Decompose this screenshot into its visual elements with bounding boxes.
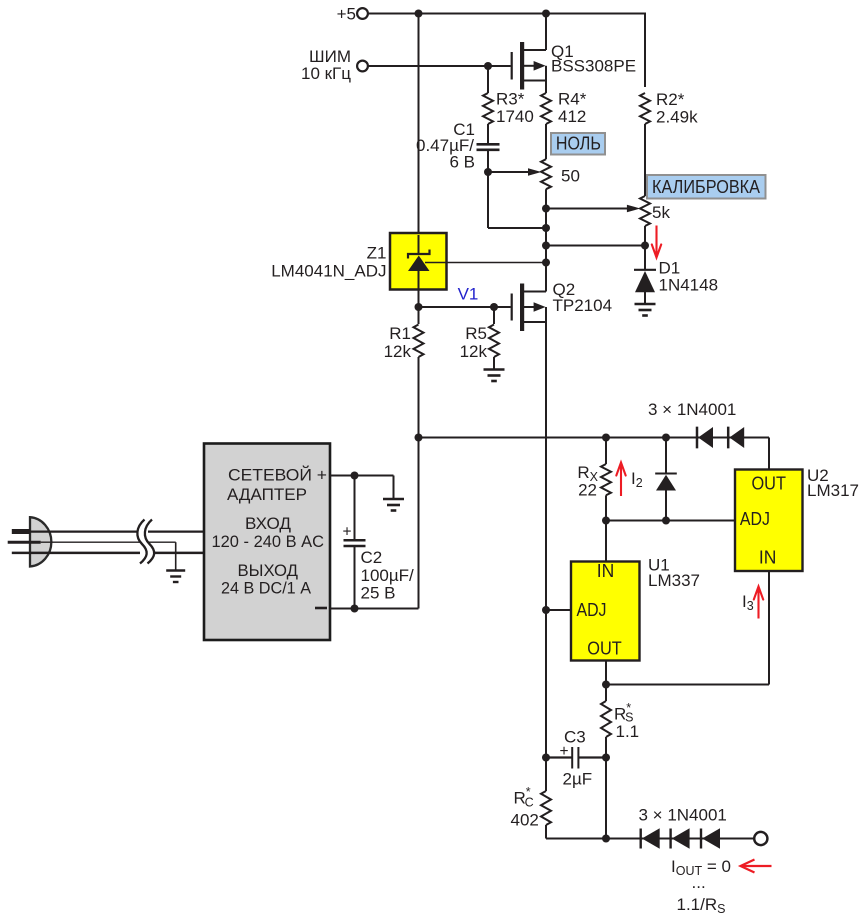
svg-text:R3*: R3* (496, 90, 525, 109)
current arrow I3 (757, 588, 759, 619)
svg-text:I3: I3 (742, 592, 754, 613)
svg-text:LM337: LM337 (648, 571, 700, 590)
svg-text:22: 22 (578, 481, 597, 500)
adapter box (204, 444, 330, 641)
svg-text:1N4148: 1N4148 (659, 276, 719, 295)
svg-text:+5: +5 (337, 5, 356, 24)
svg-text:R*C: R*C (514, 785, 534, 810)
svg-text:BSS308PE: BSS308PE (551, 57, 636, 76)
resistor R4 (545, 81, 547, 94)
wire +5 rail (368, 13, 645, 15)
transistor Q1 (512, 14, 546, 90)
diode D1 (634, 269, 656, 271)
ground adapter plus (383, 499, 404, 511)
svg-text:Z1: Z1 (367, 244, 387, 263)
junction ADJ/diode (662, 517, 670, 525)
svg-text:412: 412 (558, 107, 586, 126)
wire D1 to ground (644, 292, 646, 305)
wire cord earth (41, 541, 140, 543)
resistor Rc (541, 791, 551, 825)
svg-text:2µF: 2µF (563, 770, 593, 789)
junction D1 wire (542, 242, 550, 250)
ground D1 (635, 304, 656, 316)
svg-text:...: ... (692, 873, 706, 892)
mains plug (30, 517, 51, 566)
ground R5 (484, 370, 505, 382)
label НОЛЬ (551, 133, 605, 155)
current arrow I2 (620, 464, 622, 497)
svg-text:50: 50 (561, 167, 580, 186)
diode clamp (665, 438, 667, 474)
capacitor C3 (571, 747, 573, 769)
junction bottom rail/Rs (602, 835, 610, 843)
wire pot to Q2 drain (545, 189, 547, 291)
wire Rc to bottom rail (545, 825, 547, 839)
svg-text:LM317: LM317 (807, 481, 859, 500)
wire rail to Rx (605, 438, 607, 465)
junction +5/Z1 branch (415, 10, 423, 18)
resistor R2 (640, 93, 650, 124)
svg-text:КАЛИБРОВКА: КАЛИБРОВКА (652, 177, 760, 197)
junction +5/Q1 drain (542, 10, 550, 18)
diode bottom 2 (669, 829, 671, 849)
transistor Q2 (512, 263, 546, 332)
junction rail/diode branch (662, 434, 670, 442)
diode bottom 1 (640, 829, 642, 849)
shunt reference Z1 box (390, 233, 447, 290)
svg-text:ADJ: ADJ (740, 508, 770, 529)
svg-text:LM4041N_ADJ: LM4041N_ADJ (271, 262, 386, 281)
svg-text:+: + (560, 743, 569, 760)
label adapter text (212, 466, 328, 598)
wire diodes to U2 OUT (768, 438, 770, 470)
wire ADJ to U1 IN (605, 521, 607, 562)
current arrow Iout (741, 860, 772, 873)
diode bottom 3 (700, 829, 702, 849)
wire +5 branch down to Z1 (418, 14, 420, 235)
svg-text:IN: IN (597, 560, 615, 581)
svg-text:ВЫХОД: ВЫХОД (238, 561, 299, 580)
svg-text:1740: 1740 (496, 107, 534, 126)
resistor R5 (493, 307, 495, 324)
svg-text:V1: V1 (458, 285, 479, 304)
cord break symbol (141, 520, 150, 564)
junction plus/C2 (351, 472, 359, 480)
svg-text:TP2104: TP2104 (553, 296, 613, 315)
junction C1 branch return (542, 224, 550, 232)
svg-text:R4*: R4* (558, 90, 587, 109)
diode top pair 1 (696, 427, 699, 449)
svg-text:24 В DC/1 А: 24 В DC/1 А (221, 579, 312, 598)
wire to КАЛИБРОВКА wiper (546, 208, 628, 210)
resistor R3 (483, 93, 493, 124)
potentiometer НОЛЬ 50 (541, 159, 551, 189)
junction U1 ADJ / main line (542, 606, 550, 614)
svg-text:25 В: 25 В (361, 584, 396, 603)
wire U2 IN down (768, 571, 770, 685)
svg-text:10 кГц: 10 кГц (301, 64, 351, 83)
wire plus to ground (393, 476, 395, 500)
wire adapter minus (330, 608, 419, 610)
wire gate junction down to R3 (487, 66, 489, 93)
wire PWM gate wire (368, 65, 511, 67)
junction V1/R1 (415, 303, 423, 311)
label U2 pins (740, 473, 786, 568)
svg-text:+: + (343, 524, 352, 541)
wire C1 to wiper junction (487, 151, 489, 172)
svg-text:R2*: R2* (656, 90, 685, 109)
wire C1 branch down (487, 172, 489, 228)
junction pot bottom / cal wiper (542, 205, 550, 213)
svg-text:СЕТЕВОЙ +: СЕТЕВОЙ + (228, 466, 327, 485)
wire R4 to pot (545, 124, 547, 159)
regulator U1 box (571, 562, 640, 661)
junction rail/R1 branch (415, 434, 423, 442)
svg-text:2.49k: 2.49k (656, 108, 698, 127)
wire to D1 node (546, 245, 645, 247)
wire Rx to ADJ node (605, 495, 607, 520)
svg-text:6 В: 6 В (449, 153, 475, 172)
svg-text:R1: R1 (389, 324, 411, 343)
wire V1 (419, 306, 511, 308)
wire bottom rail (546, 838, 754, 840)
svg-text:1.1/RS: 1.1/RS (677, 895, 726, 916)
resistor R1 (418, 307, 420, 324)
plug prong top (12, 529, 30, 534)
svg-text:НОЛЬ: НОЛЬ (556, 133, 601, 153)
junction C3 right (602, 754, 610, 762)
capacitor C1 (477, 143, 500, 146)
wire Z1 ADJ to node (425, 262, 546, 264)
junction cal/D1 (641, 242, 649, 250)
wire +5 rail down to R2 (644, 13, 646, 88)
svg-text:R*S: R*S (614, 701, 634, 725)
svg-text:120 - 240 В AC: 120 - 240 В AC (212, 532, 325, 551)
svg-text:3 × 1N4001: 3 × 1N4001 (639, 806, 727, 825)
svg-text:12k: 12k (384, 342, 412, 361)
svg-text:100µF/: 100µF/ (361, 566, 415, 585)
svg-text:I2: I2 (631, 469, 643, 490)
junction C1/wiper (484, 168, 492, 176)
potentiometer КАЛИБРОВКА 5k (640, 196, 650, 226)
wire C3 row (546, 756, 572, 758)
wire wiper arrow to pot НОЛЬ (488, 171, 529, 173)
label КАЛИБРОВКА (647, 175, 766, 199)
svg-text:C2: C2 (361, 548, 383, 567)
wire OUT row to U2 IN (606, 684, 769, 686)
regulator U2 box (735, 470, 803, 572)
svg-text:3 × 1N4001: 3 × 1N4001 (648, 400, 736, 419)
junction gate/R3 (484, 62, 492, 70)
svg-text:R5: R5 (465, 324, 487, 343)
ground cord earth (166, 571, 185, 583)
wire U1 ADJ (546, 609, 571, 611)
svg-text:ADJ: ADJ (577, 599, 607, 620)
node output terminal (754, 832, 767, 845)
svg-text:402: 402 (511, 811, 539, 830)
svg-text:ВХОД: ВХОД (245, 514, 291, 533)
svg-text:OUT: OUT (751, 473, 786, 494)
junction V1/R5 (490, 303, 498, 311)
label U1 pins (577, 560, 622, 659)
wire U1 OUT down (605, 661, 607, 702)
diode top pair 2 (727, 427, 730, 449)
junction minus/C2 (351, 605, 359, 613)
resistor Rx (601, 464, 611, 495)
wire Q2 source down (545, 322, 547, 610)
wire pot to D1 (644, 226, 646, 270)
svg-text:IN: IN (759, 547, 777, 568)
svg-text:1.1: 1.1 (616, 722, 640, 741)
wire R3 to C1 (487, 124, 489, 143)
resistor Rs (601, 701, 611, 737)
current arrow cal (655, 226, 657, 258)
junction Z1 ADJ wire (542, 259, 550, 267)
wire negative rail (419, 437, 770, 439)
junction rail/Rx (602, 434, 610, 442)
svg-text:OUT: OUT (587, 638, 622, 659)
capacitor C2 (354, 476, 356, 540)
wire Rs down to bottom rail (605, 737, 607, 839)
svg-text:12k: 12k (460, 342, 488, 361)
svg-text:5k: 5k (652, 203, 670, 222)
wire adapter plus (330, 475, 394, 477)
junction OUT row (602, 681, 610, 689)
label adapter minus pin (315, 607, 327, 610)
junction C3 left (542, 754, 550, 762)
zener Z1 symbol (408, 235, 430, 307)
plug prong bottom (12, 552, 30, 555)
wire main line down to Rc (545, 610, 547, 791)
wire cord top (30, 530, 140, 532)
wire ADJ row (606, 520, 735, 522)
svg-text:АДАПТЕР: АДАПТЕР (227, 485, 307, 504)
junction ADJ/Rx (602, 517, 610, 525)
wire cord bottom (30, 552, 140, 555)
plug prong middle (8, 541, 41, 544)
wire R2 to pot (644, 124, 646, 196)
